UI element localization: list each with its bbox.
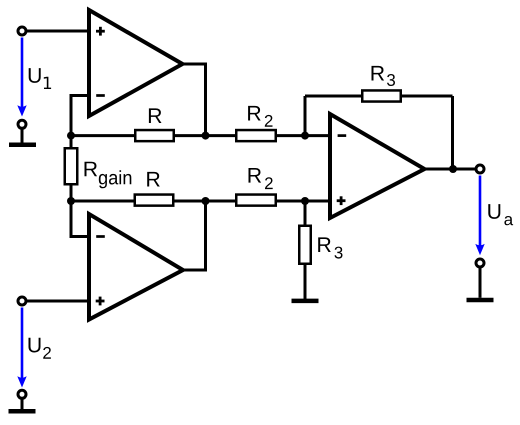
wire: feedback top rail through R3 — [305, 95, 453, 98]
terminal U2 input — [18, 297, 26, 305]
op1 minus sign — [96, 94, 105, 97]
resistor R (top) — [135, 130, 174, 141]
ground Ua — [467, 298, 494, 303]
terminal Ua output — [476, 165, 484, 173]
wire: op1 output down to node B1 — [181, 64, 206, 136]
label Rgain — [85, 162, 98, 177]
op3 plus sign — [337, 196, 346, 205]
terminal below U2 arrow — [18, 390, 26, 398]
ground stem U2 — [21, 399, 24, 409]
label R3 (feedback) — [372, 66, 385, 81]
label U2 — [29, 338, 41, 353]
op3 minus sign — [338, 134, 347, 137]
label R (bottom) — [147, 172, 160, 187]
blue arrow U2 — [21, 308, 24, 379]
terminal below Ua arrow — [476, 259, 484, 267]
wire: op3 output to terminal Ua — [423, 168, 476, 171]
op-amp U2 (right difference amp) — [330, 114, 425, 218]
wire: op2 inverting input step to node A2 — [71, 201, 90, 237]
op-amp U1b (bottom left) — [89, 214, 183, 320]
op2 plus sign — [96, 297, 105, 306]
resistor R2 (bottom) — [236, 195, 276, 206]
ground R3 — [292, 299, 319, 304]
terminal U1 input — [18, 27, 26, 35]
junction node C2 (305,201) — [301, 197, 309, 205]
junction node C1 (205.5,201) — [202, 197, 210, 205]
blue arrow U1 — [21, 38, 24, 108]
label U1 — [29, 68, 41, 83]
label R3 (to ground) — [318, 237, 331, 252]
junction node A (71,135.6) — [67, 132, 75, 140]
label Ua — [488, 204, 500, 219]
junction node B1 (205.5,135.6) — [202, 132, 210, 140]
resistor Rgain (vertical) — [65, 148, 78, 184]
wire: op1 inverting input step to node A — [71, 96, 90, 136]
wire: U2 input to op2 non-inverting input — [26, 300, 90, 303]
op2 minus sign — [96, 235, 105, 238]
wire: Rgain column — [70, 136, 73, 201]
ground stem Ua — [479, 268, 482, 298]
resistor R (bottom) — [135, 195, 174, 206]
label R (top) — [149, 108, 162, 123]
wire: op2 output up to node C1 — [182, 201, 206, 270]
ground U1 — [9, 142, 36, 147]
junction output node (453,169) — [449, 165, 457, 173]
label R2 (top) — [248, 106, 261, 121]
resistor R2 (top) — [236, 130, 276, 141]
junction node A2 (71,201) — [67, 197, 75, 205]
wire: row B node A to op3 inverting input — [71, 134, 330, 137]
junction node B2 (305,135.6) — [301, 132, 309, 140]
ground U2 — [9, 409, 36, 414]
op-amp U1a (top left) — [89, 10, 183, 116]
blue arrow Ua — [479, 176, 482, 246]
resistor R3 (to ground, vertical) — [299, 226, 311, 264]
wire: feedback up from node B2 — [304, 96, 307, 136]
ground stem U1 — [21, 129, 24, 143]
wire: node C2 down through R3 to ground — [304, 201, 307, 299]
wire: row C node A2 to op3 non-inverting input — [71, 200, 330, 203]
wire: feedback down to output node — [451, 96, 454, 169]
resistor R3 (feedback) — [362, 90, 401, 101]
wire: U1 input to op-amp U1a non-inverting input — [26, 30, 90, 33]
op1 plus sign — [96, 27, 105, 36]
label R2 (bottom) — [249, 168, 262, 183]
terminal below U1 arrow — [18, 120, 26, 128]
